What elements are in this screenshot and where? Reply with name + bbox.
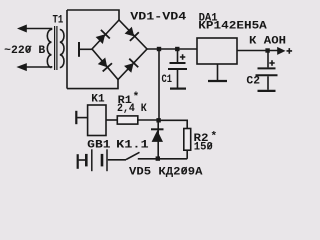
svg-text:*: *: [133, 91, 140, 103]
svg-text:К АОН: К АОН: [249, 36, 286, 48]
svg-text:2,4 К: 2,4 К: [117, 103, 147, 115]
svg-text:C2: C2: [246, 76, 260, 88]
svg-text:GB1: GB1: [87, 139, 111, 151]
svg-text:K1: K1: [91, 93, 105, 105]
svg-text:~220 В: ~220 В: [4, 45, 45, 57]
svg-text:150: 150: [194, 142, 213, 154]
svg-text:T1: T1: [53, 15, 64, 27]
svg-text:VD1-VD4: VD1-VD4: [130, 11, 186, 23]
svg-text:K1.1: K1.1: [116, 139, 149, 151]
svg-text:VD5 КД209А: VD5 КД209А: [129, 166, 203, 178]
svg-text:C1: C1: [162, 74, 173, 86]
svg-text:КР142ЕН5А: КР142ЕН5А: [198, 21, 267, 33]
